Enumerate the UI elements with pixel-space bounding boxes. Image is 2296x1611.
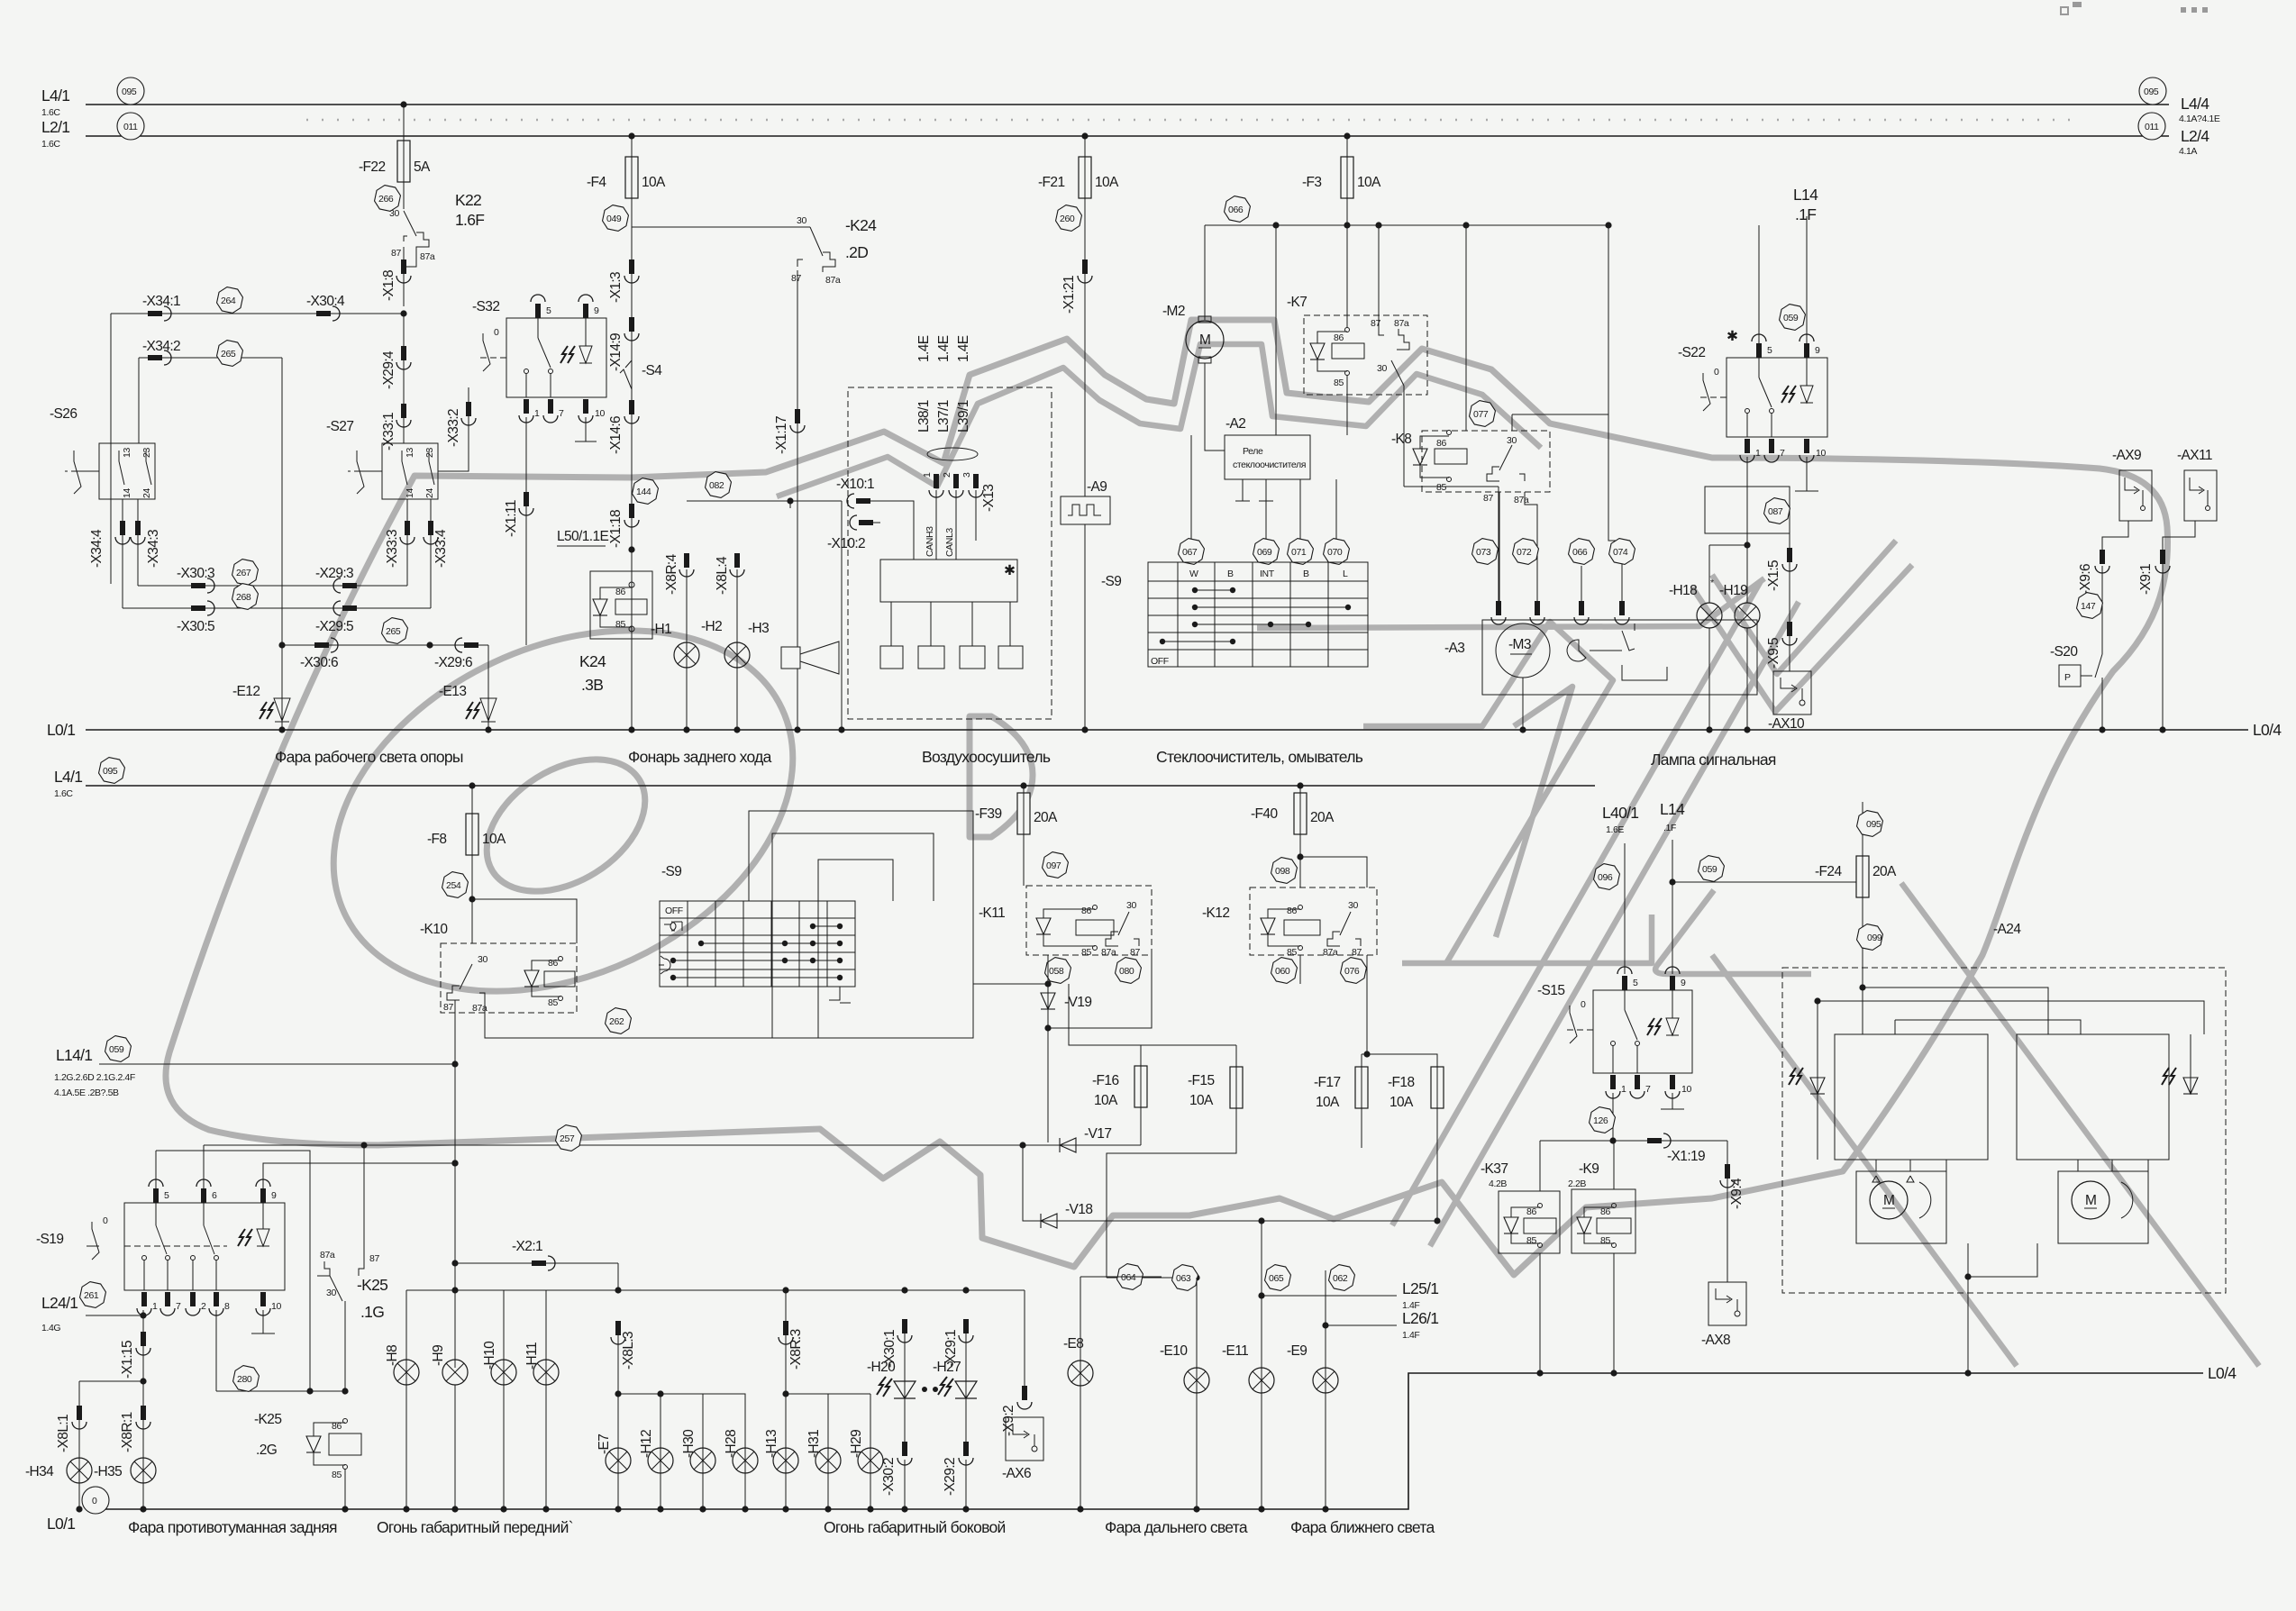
X30:1 / H20 LED chain — [897, 1319, 912, 1342]
svg-text:0: 0 — [103, 1215, 108, 1226]
svg-text:-X30:5: -X30:5 — [177, 619, 214, 634]
svg-text:-F39: -F39 — [975, 806, 1001, 822]
svg-text:8: 8 — [224, 1301, 230, 1312]
svg-text:-X10:2: -X10:2 — [827, 536, 865, 551]
letter O inner — [463, 733, 670, 919]
svg-text:10A: 10A — [1094, 1093, 1118, 1108]
svg-text:-H10: -H10 — [482, 1341, 497, 1370]
svg-text:072: 072 — [1517, 547, 1532, 558]
S32 pin1 down to X1:11 — [525, 417, 527, 645]
svg-text:099: 099 — [1867, 933, 1882, 943]
F8 drop — [469, 782, 475, 788]
svg-text:-S19: -S19 — [36, 1232, 63, 1247]
svg-text:-H11: -H11 — [524, 1342, 540, 1370]
svg-text:L24/1: L24/1 — [41, 1294, 77, 1312]
right motor module — [2058, 1171, 2148, 1243]
svg-text:L40/1: L40/1 — [1602, 804, 1638, 822]
svg-text:-H3: -H3 — [748, 621, 769, 636]
svg-text:-X9:4: -X9:4 — [1729, 1178, 1745, 1209]
svg-text:10A: 10A — [1357, 175, 1381, 190]
svg-text:-K11: -K11 — [979, 906, 1005, 921]
svg-text:L0/1: L0/1 — [47, 1515, 75, 1533]
svg-text:096: 096 — [1598, 872, 1613, 883]
svg-text:-M3: -M3 — [1508, 637, 1531, 652]
A24 down to bus — [1964, 1273, 1971, 1279]
svg-text:L2/4: L2/4 — [2181, 127, 2209, 145]
svg-text:Воздухоосушитель: Воздухоосушитель — [922, 748, 1051, 766]
svg-text:126: 126 — [1593, 1115, 1608, 1126]
svg-text:1.4E: 1.4E — [956, 335, 971, 362]
svg-text:-K7: -K7 — [1287, 295, 1307, 310]
Z glyph bottom bar — [1402, 915, 1652, 963]
svg-text:L0/4: L0/4 — [2253, 721, 2282, 739]
wire F22 drop — [403, 105, 405, 141]
svg-text:-X29:2: -X29:2 — [943, 1458, 958, 1496]
svg-text:-S4: -S4 — [642, 363, 662, 378]
svg-text:-X9:5: -X9:5 — [1766, 638, 1781, 669]
svg-text:1: 1 — [1621, 1084, 1626, 1095]
svg-text:L14: L14 — [1660, 800, 1685, 818]
svg-text:9: 9 — [1681, 978, 1686, 988]
svg-text:268: 268 — [236, 592, 251, 603]
svg-text:-X14:6: -X14:6 — [608, 416, 624, 454]
node 011 right — [2138, 113, 2165, 140]
svg-text:.2G: .2G — [256, 1443, 277, 1458]
svg-text:86: 86 — [1436, 438, 1446, 449]
node 266 — [373, 184, 402, 213]
svg-text:1.6F: 1.6F — [455, 211, 484, 229]
svg-text:10: 10 — [1816, 448, 1826, 459]
svg-text:10A: 10A — [1189, 1093, 1214, 1108]
svg-text:-K24: -K24 — [845, 216, 877, 234]
X8R:3 chain — [779, 1321, 793, 1344]
AX8 — [1708, 1282, 1746, 1325]
X9:2 / AX6 — [1024, 1290, 1025, 1388]
svg-text:-K9: -K9 — [1579, 1161, 1599, 1177]
F39 chain — [1023, 786, 1025, 793]
svg-text:049: 049 — [606, 214, 622, 224]
svg-text:-F3: -F3 — [1302, 175, 1321, 190]
svg-text:L4/4: L4/4 — [2181, 95, 2209, 113]
svg-text:30: 30 — [797, 215, 806, 226]
svg-text:070: 070 — [1327, 547, 1343, 558]
svg-text:-S9: -S9 — [1101, 574, 1121, 589]
contact X14:6 — [624, 400, 639, 423]
svg-text:CANH3: CANH3 — [925, 526, 935, 557]
svg-text:Реле: Реле — [1243, 446, 1263, 457]
svg-text:-H30: -H30 — [681, 1429, 697, 1458]
svg-text:4.1A: 4.1A — [2179, 146, 2197, 157]
riser from S19 area down lamps H8..H11 — [451, 1260, 458, 1266]
svg-text:-F40: -F40 — [1251, 806, 1278, 822]
svg-text:254: 254 — [446, 880, 461, 891]
svg-text:10A: 10A — [482, 832, 506, 847]
S22 feeds — [1758, 225, 1760, 345]
svg-text:0: 0 — [1581, 999, 1586, 1010]
svg-text:087: 087 — [1768, 506, 1783, 517]
X8R:1 H35 — [136, 1406, 150, 1429]
svg-text:23: 23 — [141, 448, 152, 458]
svg-text:0: 0 — [92, 1496, 97, 1506]
pins 1 2 3 X13 — [929, 474, 943, 497]
svg-text:-X33:3: -X33:3 — [385, 530, 400, 568]
svg-text:280: 280 — [237, 1374, 252, 1385]
svg-text:7: 7 — [559, 408, 564, 419]
svg-text:074: 074 — [1613, 547, 1628, 558]
E-lamp feeds — [1258, 1217, 1264, 1224]
svg-text:-H29: -H29 — [849, 1430, 864, 1458]
V17 — [1019, 1142, 1025, 1148]
big blob outline (gear silhouette) — [166, 320, 2168, 1275]
svg-text:Лампа сигнальная: Лампа сигнальная — [1651, 751, 1776, 769]
svg-text:Фонарь заднего хода: Фонарь заднего хода — [628, 748, 772, 766]
svg-text:069: 069 — [1257, 547, 1272, 558]
svg-text:24: 24 — [424, 488, 435, 498]
svg-text:-H31: -H31 — [806, 1430, 822, 1458]
svg-text:Фара противотуманная задняя: Фара противотуманная задняя — [128, 1518, 337, 1536]
svg-text:87: 87 — [1352, 947, 1362, 958]
svg-text:13: 13 — [122, 448, 132, 458]
svg-text:-X30:4: -X30:4 — [306, 294, 345, 309]
right LED — [2183, 1078, 2198, 1094]
svg-text:080: 080 — [1119, 966, 1134, 977]
svg-text:.2D: .2D — [845, 243, 868, 261]
svg-text:059: 059 — [109, 1044, 124, 1055]
bus L4/1 top — [86, 104, 2169, 105]
F15 — [1230, 1067, 1243, 1108]
svg-text:-S9: -S9 — [661, 864, 681, 879]
svg-text:5A: 5A — [414, 159, 431, 175]
svg-text:5: 5 — [1633, 978, 1638, 988]
svg-text:4.1A?4.1E: 4.1A?4.1E — [2179, 114, 2220, 124]
svg-text:-X33:2: -X33:2 — [446, 409, 461, 447]
svg-text:-X14:9: -X14:9 — [608, 333, 624, 371]
svg-text:7: 7 — [176, 1301, 181, 1312]
svg-text:1.6C: 1.6C — [54, 788, 73, 799]
contact X14:9 — [624, 317, 639, 341]
svg-text:-X29:3: -X29:3 — [315, 566, 353, 581]
svg-text:-X1:15: -X1:15 — [120, 1341, 135, 1379]
svg-text:L14: L14 — [1793, 186, 1818, 204]
svg-text:87: 87 — [791, 273, 801, 284]
svg-text:-K8: -K8 — [1391, 432, 1411, 447]
letter P bowl — [970, 716, 1033, 837]
node 066 — [1223, 195, 1252, 223]
svg-text:1.6C: 1.6C — [41, 107, 60, 118]
V18 — [1023, 1145, 1437, 1221]
svg-text:-E12: -E12 — [232, 684, 260, 699]
svg-text:1: 1 — [152, 1301, 158, 1312]
X8L:1 H34 — [78, 1381, 80, 1509]
svg-text:86: 86 — [1287, 906, 1297, 916]
svg-text:062: 062 — [1333, 1273, 1348, 1284]
svg-text:87: 87 — [1371, 318, 1380, 329]
svg-text:86: 86 — [1081, 906, 1091, 916]
svg-text:1.4G: 1.4G — [41, 1323, 60, 1333]
svg-text:-H1: -H1 — [651, 622, 671, 637]
X8L:3 chain — [611, 1321, 625, 1344]
svg-text:85: 85 — [332, 1470, 342, 1480]
svg-text:011: 011 — [2145, 122, 2159, 132]
svg-text:-H35: -H35 — [94, 1464, 122, 1479]
contact X1:8 — [396, 259, 411, 283]
fuse F22 — [397, 141, 410, 182]
svg-text:86: 86 — [1600, 1206, 1610, 1217]
band through S15 corner — [1655, 890, 1811, 974]
svg-text:082: 082 — [709, 480, 724, 491]
S22 pin1 loop box — [1746, 457, 1748, 545]
svg-text:-X8L:3: -X8L:3 — [621, 1332, 636, 1370]
svg-text:K24: K24 — [579, 652, 606, 670]
svg-text:-H27: -H27 — [933, 1360, 961, 1375]
X9:4 chain — [1727, 1141, 1728, 1282]
svg-text:265: 265 — [221, 349, 236, 360]
svg-text:-A9: -A9 — [1087, 479, 1107, 495]
S15 pin1 down — [1612, 1093, 1614, 1141]
svg-text:23: 23 — [424, 448, 435, 458]
svg-text:L14/1: L14/1 — [56, 1046, 92, 1064]
svg-text:-S27: -S27 — [326, 419, 353, 434]
chain below junction: X29:4 X33:1 — [403, 314, 405, 443]
svg-text:257: 257 — [560, 1133, 575, 1144]
svg-text:-F8: -F8 — [427, 832, 446, 847]
svg-text:-F18: -F18 — [1388, 1075, 1414, 1090]
svg-text:-E10: -E10 — [1160, 1343, 1188, 1359]
svg-text:Стеклоочиститель, омыватель: Стеклоочиститель, омыватель — [1156, 748, 1363, 766]
svg-text:1.4E: 1.4E — [936, 335, 952, 362]
wire X30:6 / X29:6 row to E13 — [282, 644, 488, 646]
svg-text:-X8R:4: -X8R:4 — [664, 553, 679, 595]
svg-text:B: B — [1303, 569, 1309, 579]
Z glyph inner diagonal — [1496, 687, 1572, 937]
svg-text:20A: 20A — [1034, 810, 1058, 825]
svg-text:-X1:19: -X1:19 — [1667, 1149, 1705, 1164]
svg-text:86: 86 — [548, 958, 558, 969]
svg-text:✱: ✱ — [1004, 563, 1016, 578]
wire 262 loop to S9 — [485, 811, 973, 1038]
svg-text:261: 261 — [84, 1290, 99, 1301]
lamp feed wire — [406, 1289, 1025, 1291]
svg-text:-X8L:1: -X8L:1 — [56, 1415, 71, 1452]
svg-text:-X8L:4: -X8L:4 — [715, 556, 730, 595]
svg-text:87a: 87a — [825, 275, 841, 286]
svg-text:-E11: -E11 — [1222, 1343, 1248, 1359]
svg-text:87a: 87a — [420, 251, 435, 262]
L24 junction — [140, 1312, 146, 1318]
svg-text:1: 1 — [534, 408, 540, 419]
Z glyph top bar — [1363, 622, 1613, 963]
S15 pin10 ground — [1672, 1093, 1673, 1109]
svg-text:-K10: -K10 — [420, 922, 448, 937]
X1:19 wire — [1540, 1140, 1727, 1142]
svg-text:Огонь габаритный боковой: Огонь габаритный боковой — [824, 1518, 1006, 1536]
relay K24 coil box — [590, 571, 652, 639]
S19 pin10 ground — [262, 1310, 264, 1333]
svg-text:-X2:1: -X2:1 — [512, 1239, 542, 1254]
svg-text:*: * — [1710, 578, 1714, 588]
svg-text:10A: 10A — [1316, 1095, 1340, 1110]
svg-text:L: L — [1343, 569, 1348, 579]
svg-text:-V18: -V18 — [1065, 1202, 1092, 1217]
svg-text:-S15: -S15 — [1537, 983, 1564, 998]
svg-text:W: W — [1189, 569, 1198, 579]
svg-text:-AX9: -AX9 — [2112, 448, 2141, 463]
F40 chain — [1299, 786, 1301, 793]
svg-text:13: 13 — [405, 448, 415, 458]
wire L14/1 — [99, 1063, 455, 1065]
svg-text:L39/1: L39/1 — [956, 400, 971, 432]
node 011 top-left — [117, 113, 144, 140]
svg-text:144: 144 — [636, 487, 651, 497]
svg-text:Фара рабочего света опоры: Фара рабочего света опоры — [275, 748, 463, 766]
svg-text:262: 262 — [609, 1016, 624, 1027]
svg-text:14: 14 — [405, 488, 415, 498]
wires down from K8 to A3 — [1499, 492, 1500, 610]
svg-text:-X1:21: -X1:21 — [1061, 276, 1077, 314]
svg-text:9: 9 — [1815, 345, 1820, 356]
svg-text:1: 1 — [1755, 448, 1761, 459]
svg-text:-X8R:3: -X8R:3 — [788, 1329, 804, 1370]
svg-text:P: P — [2064, 672, 2071, 683]
svg-text:87a: 87a — [320, 1250, 335, 1261]
svg-text:064: 064 — [1121, 1272, 1136, 1283]
AX10 — [1773, 671, 1811, 714]
svg-text:2: 2 — [201, 1301, 206, 1312]
svg-text:L50/1.1E: L50/1.1E — [557, 529, 609, 544]
svg-text:.3B: .3B — [581, 676, 603, 694]
K10 output down — [454, 1000, 456, 1263]
air dryer dashed enclosure — [848, 387, 1052, 719]
E8 — [1116, 1262, 1144, 1291]
L26/1 — [1326, 1324, 1397, 1326]
contact X1:3 — [624, 259, 639, 283]
svg-text:L4/1: L4/1 — [41, 86, 69, 105]
letter O outer — [275, 560, 852, 1061]
svg-text:-X1:5: -X1:5 — [1766, 560, 1781, 591]
svg-text:.1F: .1F — [1795, 205, 1816, 223]
svg-text:-X9:2: -X9:2 — [1001, 1406, 1016, 1436]
A24 left ECU box — [1835, 1034, 1988, 1160]
svg-text:стеклоочистителя: стеклоочистителя — [1233, 460, 1306, 470]
bus L2/1 top — [86, 135, 2169, 137]
X9:6 chain to AX9 — [2101, 566, 2103, 654]
svg-text:10: 10 — [271, 1301, 281, 1312]
svg-text:077: 077 — [1473, 409, 1489, 420]
svg-text:20A: 20A — [1872, 864, 1897, 879]
contact X1:18 — [624, 504, 639, 527]
X10:2 contact — [850, 515, 873, 530]
svg-text:10: 10 — [1681, 1084, 1691, 1095]
svg-text:-X34:2: -X34:2 — [142, 339, 180, 354]
svg-text:30: 30 — [1126, 900, 1136, 911]
svg-text:87: 87 — [1483, 493, 1493, 504]
svg-text:L2/1: L2/1 — [41, 118, 69, 136]
svg-text:K22: K22 — [455, 191, 481, 209]
wire from K7 30 down-right to A3 pin4 — [1608, 414, 1622, 610]
svg-text:.1F: .1F — [1663, 823, 1676, 833]
svg-text:265: 265 — [386, 626, 401, 637]
svg-text:-X1:11: -X1:11 — [504, 500, 519, 537]
svg-text:-X34:1: -X34:1 — [142, 294, 180, 309]
svg-text:095: 095 — [1866, 819, 1881, 830]
svg-text:-H9: -H9 — [431, 1345, 446, 1366]
svg-text:-X1:17: -X1:17 — [774, 416, 789, 454]
svg-text:87a: 87a — [1323, 947, 1338, 958]
svg-text:24: 24 — [141, 488, 152, 498]
svg-text:058: 058 — [1049, 966, 1064, 977]
svg-text:-X9:6: -X9:6 — [2078, 564, 2093, 595]
svg-text:4.2B: 4.2B — [1489, 1179, 1507, 1189]
svg-text:20A: 20A — [1310, 810, 1335, 825]
svg-text:3: 3 — [961, 472, 972, 478]
svg-text:095: 095 — [122, 86, 137, 97]
svg-text:-S26: -S26 — [50, 406, 77, 422]
svg-text:85: 85 — [1334, 378, 1344, 388]
svg-text:L4/1: L4/1 — [54, 768, 82, 786]
svg-text:87: 87 — [391, 248, 401, 259]
F16 — [1134, 1066, 1147, 1107]
X stroke NE-SW — [1392, 581, 1799, 1246]
F24 chain — [1862, 802, 1863, 856]
svg-text:095: 095 — [2144, 86, 2159, 97]
svg-text:85: 85 — [1436, 482, 1446, 493]
svg-text:L0/4: L0/4 — [2208, 1364, 2237, 1382]
svg-text:87a: 87a — [1514, 495, 1529, 505]
S26 outputs X34:4 X34:3 — [122, 499, 123, 608]
svg-text:-X34:3: -X34:3 — [146, 530, 161, 568]
svg-text:Фара дальнего света: Фара дальнего света — [1105, 1518, 1248, 1536]
L25/1 — [1262, 1295, 1397, 1297]
svg-text:9: 9 — [271, 1190, 277, 1201]
svg-text:86: 86 — [1526, 1206, 1536, 1217]
svg-text:87: 87 — [369, 1253, 379, 1264]
svg-text:5: 5 — [546, 305, 551, 316]
ecu box — [880, 560, 1017, 602]
svg-text:-F21: -F21 — [1038, 175, 1064, 190]
svg-text:-X30:6: -X30:6 — [300, 655, 338, 670]
svg-text:-X33:1: -X33:1 — [381, 413, 396, 451]
svg-text:30: 30 — [389, 208, 399, 219]
svg-text:-X9:1: -X9:1 — [2138, 564, 2154, 595]
svg-text:1.2G.2.6D 2.1G.2.4F: 1.2G.2.6D 2.1G.2.4F — [54, 1072, 135, 1083]
svg-text:147: 147 — [2081, 601, 2096, 612]
svg-text:2.2B: 2.2B — [1568, 1179, 1586, 1189]
svg-text:30: 30 — [1507, 435, 1517, 446]
svg-text:067: 067 — [1182, 547, 1198, 558]
svg-text:85: 85 — [1600, 1235, 1610, 1246]
svg-text:-AX6: -AX6 — [1002, 1466, 1031, 1481]
svg-text:✱: ✱ — [1727, 329, 1738, 344]
wire from S19 pin9 — [263, 1163, 455, 1192]
svg-text:-X13: -X13 — [981, 485, 997, 512]
svg-text:-X29:5: -X29:5 — [315, 619, 353, 634]
svg-text:10A: 10A — [642, 175, 666, 190]
svg-text:-V17: -V17 — [1084, 1126, 1111, 1142]
svg-text:-F22: -F22 — [359, 159, 385, 175]
svg-text:-F24: -F24 — [1815, 864, 1842, 879]
svg-text:30: 30 — [326, 1288, 336, 1298]
svg-text:10A: 10A — [1389, 1095, 1414, 1110]
svg-text:071: 071 — [1291, 547, 1307, 558]
nodes 073 072 066 074 — [1471, 537, 1499, 566]
svg-text:011: 011 — [123, 122, 138, 132]
wiper switch S9 table — [1190, 435, 1192, 562]
svg-text:30: 30 — [1377, 363, 1387, 374]
fuse F4 — [625, 157, 638, 198]
svg-text:-X1:8: -X1:8 — [381, 270, 396, 301]
wire X34:1 / X30:4 row — [111, 313, 404, 314]
X29:1 / H27 LED chain — [959, 1319, 973, 1342]
